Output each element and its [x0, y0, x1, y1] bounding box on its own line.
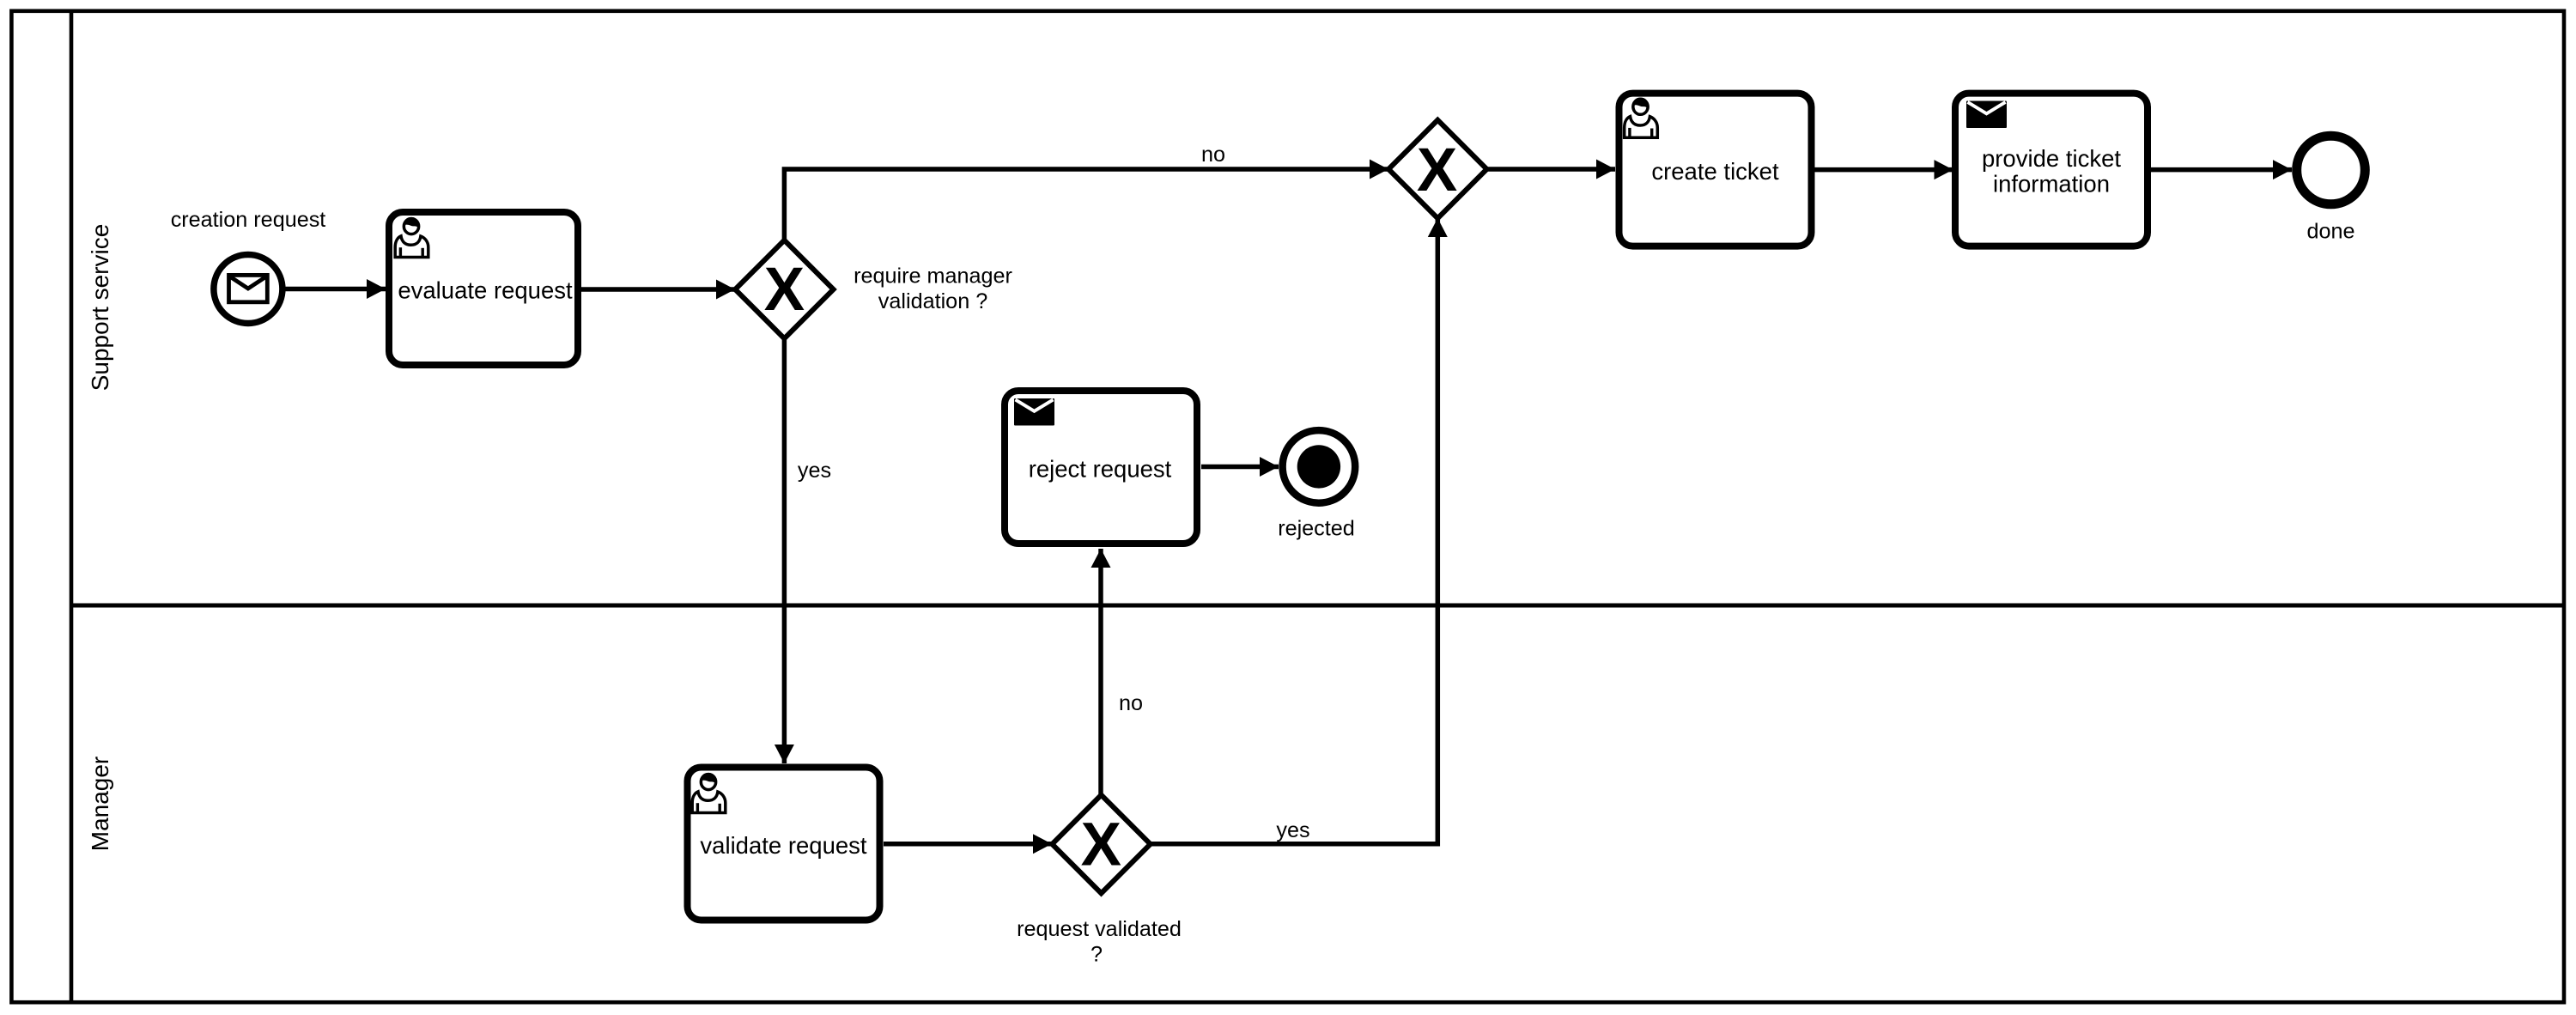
wire: G3 no-branch up to reject request [1098, 549, 1103, 795]
svg-text:creation request: creation request [171, 208, 326, 232]
gateway G2: merge [1388, 120, 1486, 218]
svg-text:X: X [1417, 137, 1457, 204]
svg-text:?: ? [1091, 942, 1103, 966]
wire: G1 yes-branch down to validate request [782, 339, 787, 764]
wire: validate request to gateway G3 [884, 842, 1052, 847]
svg-text:validate request: validate request [700, 832, 867, 859]
svg-text:create ticket: create ticket [1651, 158, 1779, 185]
svg-text:reject request: reject request [1029, 455, 1172, 482]
task: create ticket [1619, 94, 1812, 246]
wire: G1 no-branch to merge gateway G2 [784, 169, 1388, 240]
pool header divider [70, 11, 74, 1002]
svg-text:Manager: Manager [87, 757, 113, 852]
svg-text:X: X [1081, 811, 1121, 879]
gateway G3: request validated [1052, 795, 1150, 893]
end event: rejected [1283, 430, 1356, 503]
svg-text:yes: yes [1276, 818, 1309, 842]
gateway G1: require manager validation [735, 240, 833, 338]
svg-text:yes: yes [798, 459, 831, 483]
svg-text:rejected: rejected [1278, 517, 1355, 541]
wire: start to evaluate request [286, 287, 386, 292]
wire: G3 yes-branch to merge gateway G2 [1151, 218, 1438, 844]
lane divider [71, 604, 2564, 608]
task: validate request [688, 768, 880, 921]
svg-text:validation ?: validation ? [878, 289, 987, 313]
end event: done [2297, 136, 2366, 204]
wire: provide ticket information to done [2151, 167, 2292, 173]
wire: create ticket to provide ticket information [1815, 167, 1953, 173]
svg-text:require manager: require manager [854, 264, 1012, 289]
start event: creation request [214, 255, 283, 324]
wire: reject request to rejected end [1201, 465, 1279, 470]
svg-text:provide ticket: provide ticket [1982, 145, 2121, 172]
svg-text:Support service: Support service [87, 224, 113, 392]
task: provide ticket information [1955, 94, 2148, 246]
wire: G2 to create ticket [1487, 167, 1616, 172]
svg-text:information: information [1993, 171, 2110, 198]
svg-text:no: no [1201, 143, 1225, 167]
svg-text:no: no [1119, 691, 1143, 715]
task: evaluate request [389, 212, 578, 365]
svg-text:evaluate request: evaluate request [398, 277, 573, 303]
svg-text:done: done [2306, 220, 2354, 244]
wire: evaluate request to gateway G1 [581, 287, 735, 292]
task: reject request [1005, 391, 1197, 544]
svg-text:X: X [764, 256, 805, 324]
svg-text:request validated: request validated [1017, 917, 1182, 941]
